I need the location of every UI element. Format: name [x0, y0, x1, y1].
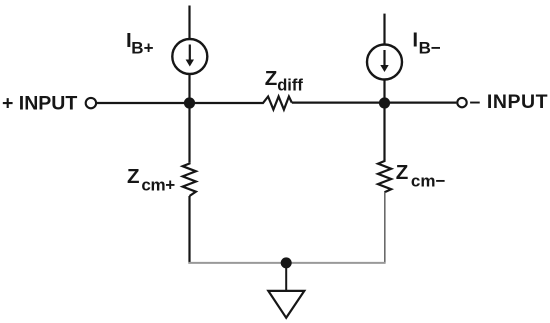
svg-text:cm−: cm− — [411, 171, 446, 190]
label Zdiff — [265, 67, 304, 95]
wire: IB+ source to node A and down to Zcm+ — [188, 74, 190, 162]
label IB- — [412, 28, 440, 57]
current source IB- arrow — [380, 50, 388, 72]
svg-text:B−: B− — [419, 38, 441, 57]
label: + INPUT — [2, 92, 77, 114]
node B (junction dot, - input) — [379, 97, 390, 108]
node A (junction dot, + input) — [184, 97, 195, 108]
svg-text:+ INPUT: + INPUT — [2, 92, 77, 114]
svg-text:cm+: cm+ — [141, 175, 175, 194]
node C (ground junction dot) — [281, 257, 292, 268]
resistor Zdiff (horizontal zigzag) — [262, 97, 292, 110]
terminal: + INPUT open circle — [86, 98, 96, 108]
resistor Zcm+ (vertical zigzag) — [183, 162, 196, 196]
current source IB- (circle) — [367, 45, 402, 80]
wire: left input horizontal — [97, 102, 262, 104]
ground symbol (open triangle) — [268, 291, 304, 318]
svg-text:I: I — [412, 28, 418, 51]
svg-text:diff: diff — [277, 77, 303, 95]
wire: top lead to IB- source — [383, 14, 385, 44]
svg-text:Z: Z — [396, 161, 409, 184]
resistor Zcm- (vertical zigzag) — [378, 160, 391, 192]
label IB+ — [126, 29, 154, 58]
svg-text:– INPUT: – INPUT — [470, 91, 549, 113]
current source IB+ (circle) — [172, 39, 207, 74]
svg-text:B+: B+ — [131, 39, 153, 58]
label: - INPUT — [470, 91, 549, 113]
svg-text:Z: Z — [265, 67, 278, 90]
wire: Zcm- down to bottom rail (gray) — [384, 192, 386, 263]
svg-text:Z: Z — [127, 165, 140, 188]
label Zcm+ — [127, 165, 175, 194]
label Zcm- — [396, 161, 446, 190]
wire: bottom common rail (gray) — [188, 262, 385, 264]
wire: Zcm+ down to bottom rail — [188, 196, 190, 264]
terminal: - INPUT open circle — [457, 98, 466, 107]
wire: top lead to IB+ source — [188, 6, 190, 39]
current source IB+ arrow — [186, 45, 194, 67]
wire: right input horizontal — [292, 101, 457, 103]
wire: IB- source to node B and down to Zcm- — [383, 80, 385, 161]
wire: node C to ground symbol — [285, 263, 287, 291]
